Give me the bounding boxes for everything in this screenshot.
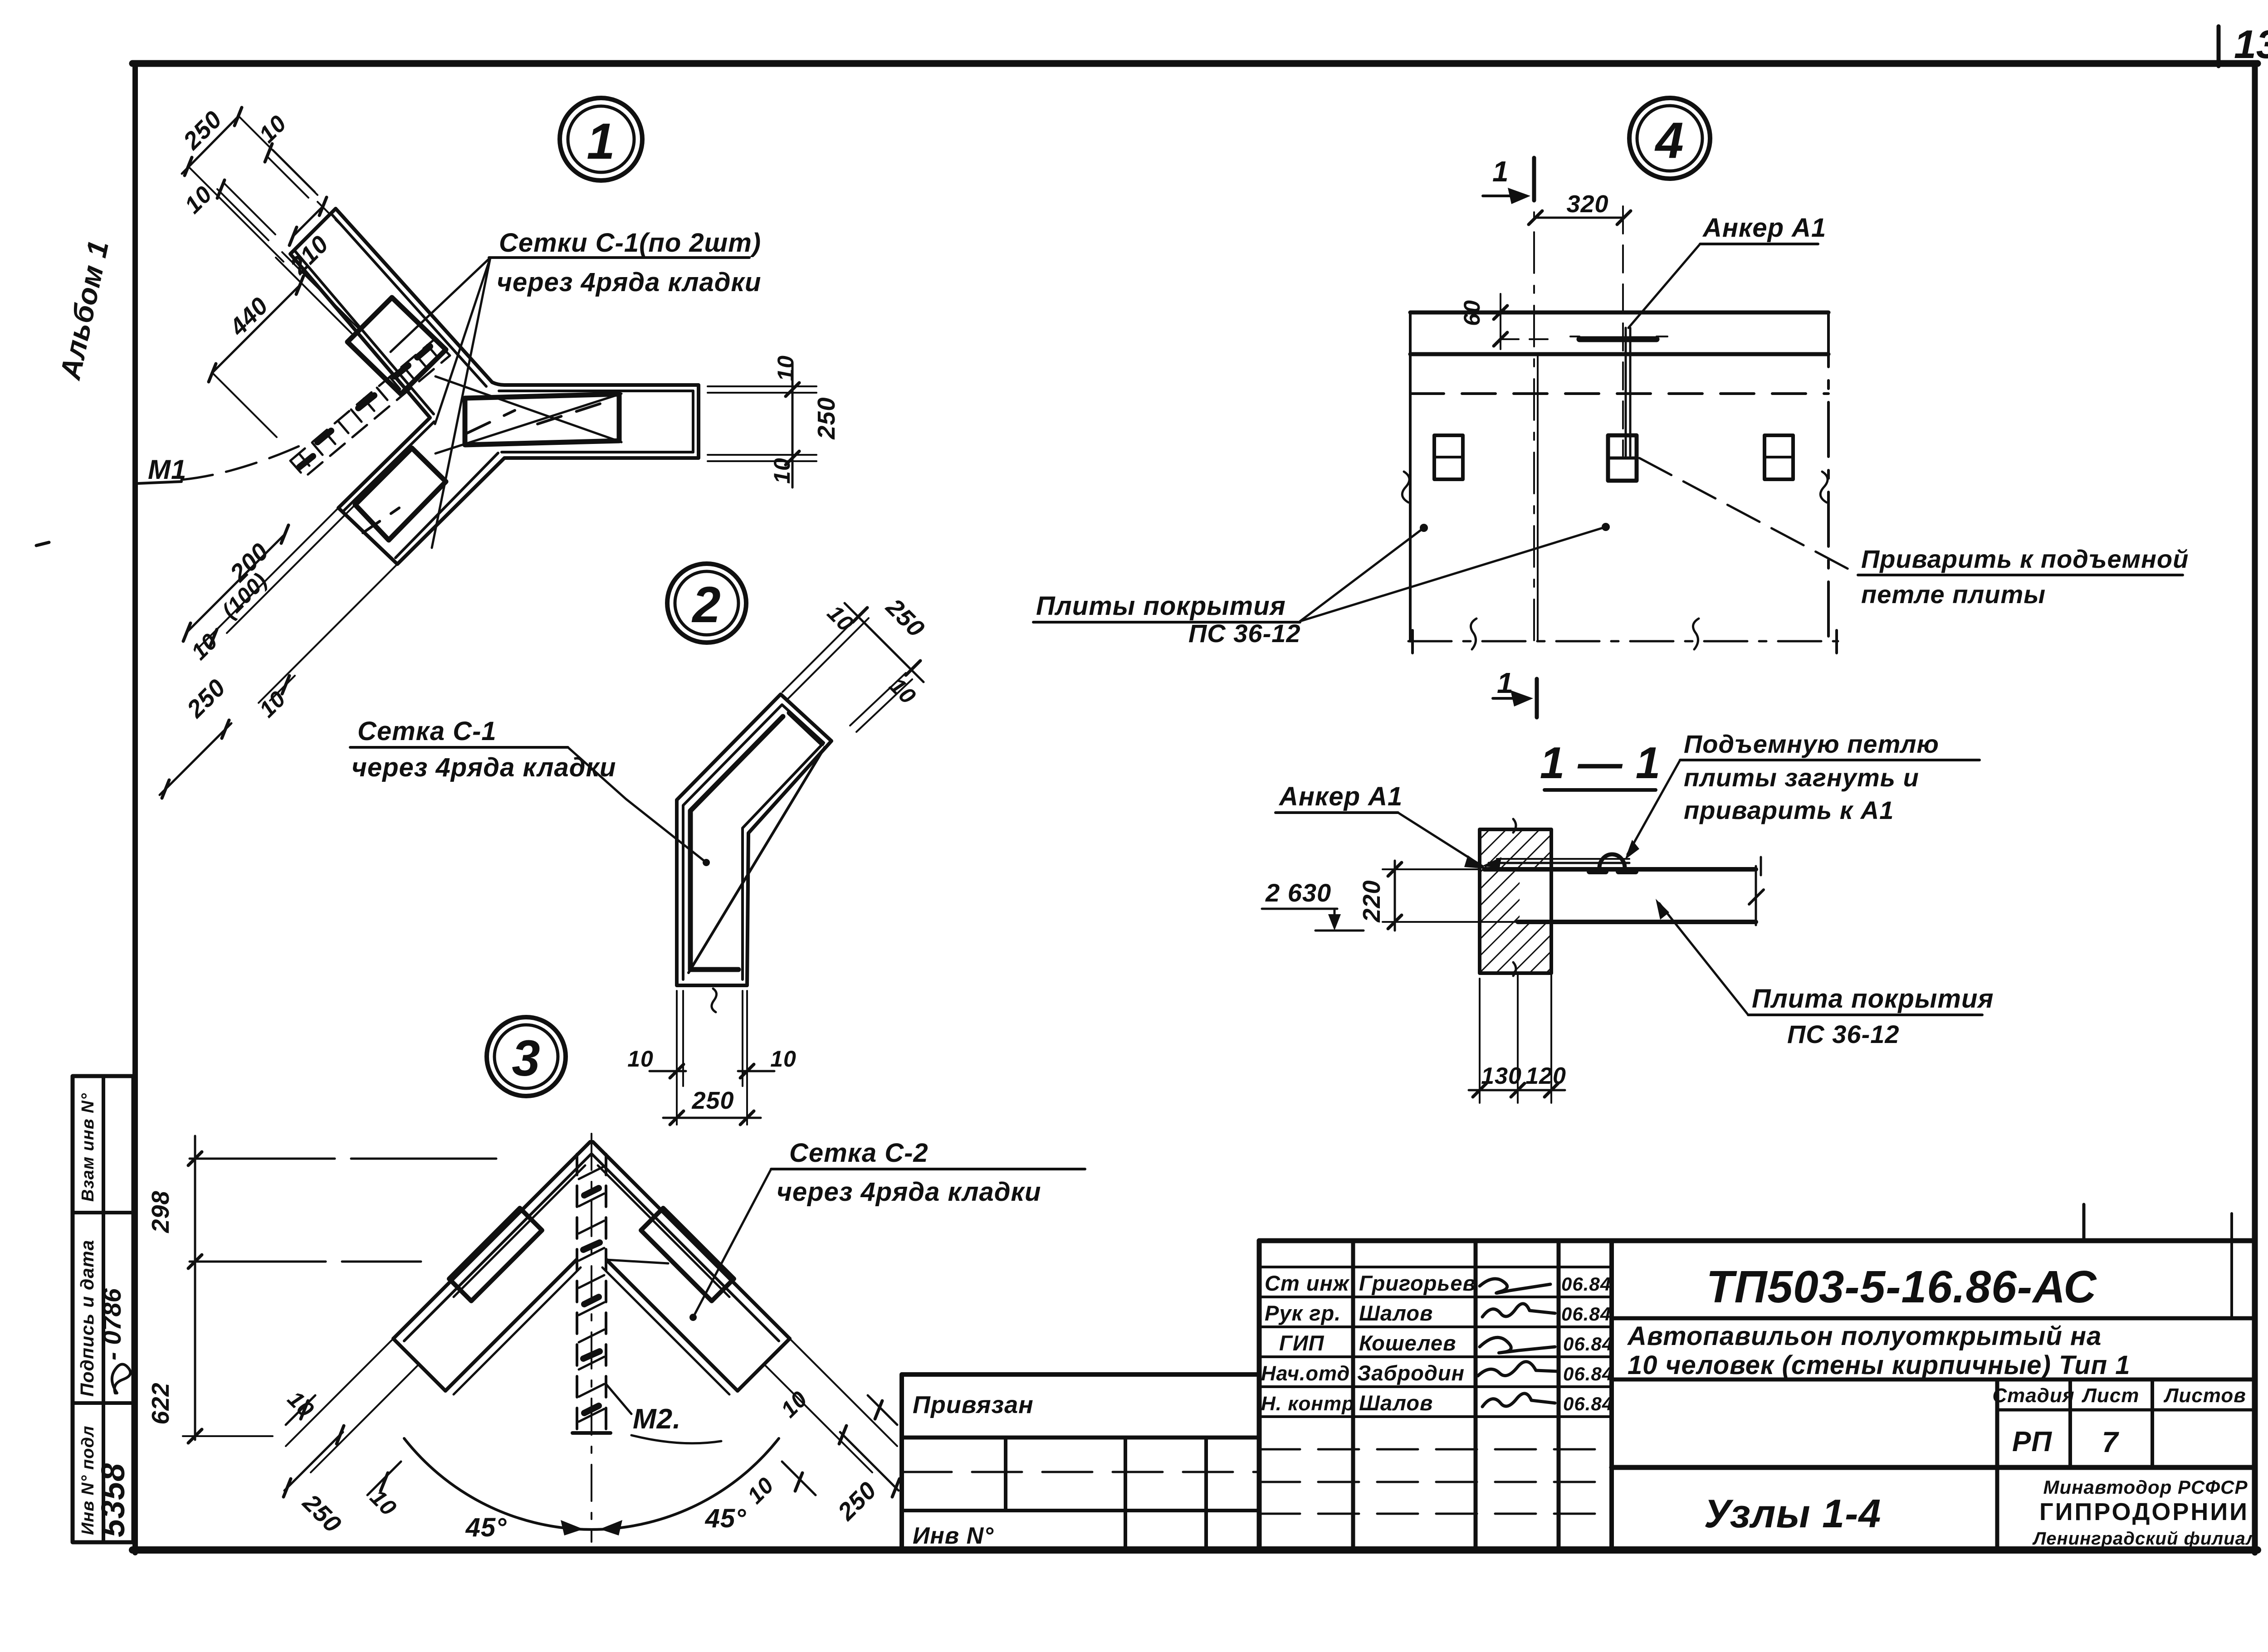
svg-text:440: 440 xyxy=(224,292,274,341)
svg-text:10: 10 xyxy=(776,1386,812,1423)
center axis xyxy=(591,1134,592,1542)
mesh diagonal X line 2 xyxy=(435,394,621,453)
svg-text:Альбом 1: Альбом 1 xyxy=(54,237,115,383)
wall inner line E top xyxy=(499,390,693,392)
wall plan right edge xyxy=(1827,312,1830,641)
svg-text:250: 250 xyxy=(691,1087,734,1114)
svg-text:Лист: Лист xyxy=(2082,1384,2140,1407)
wall top break tick xyxy=(1513,819,1516,833)
E arm dim line xyxy=(792,363,794,487)
svg-text:1: 1 xyxy=(1497,667,1514,699)
svg-text:М2.: М2. xyxy=(633,1403,681,1435)
anchor bar on slab xyxy=(1489,862,1629,864)
mesh cross line right xyxy=(606,1260,668,1263)
DETAIL-4 xyxy=(1033,98,2189,717)
svg-text:Анкер А1: Анкер А1 xyxy=(1278,782,1403,811)
sig row lines xyxy=(1259,1266,1612,1268)
break mark bottom 1 xyxy=(1471,619,1477,649)
stamp table column divider xyxy=(102,1076,105,1542)
svg-text:через 4ряда кладки: через 4ряда кладки xyxy=(777,1177,1041,1207)
svg-text:РП: РП xyxy=(2012,1426,2052,1457)
border bottom xyxy=(132,1546,2258,1554)
leader privarit xyxy=(1639,458,1858,574)
svg-text:Нач.отд: Нач.отд xyxy=(1261,1362,1350,1385)
mesh diagonal xyxy=(689,747,825,973)
left height ext line bottom xyxy=(183,1435,273,1437)
wall inner line NE lower xyxy=(294,250,434,414)
svg-text:13: 13 xyxy=(2234,22,2268,67)
svg-text:250: 250 xyxy=(832,1477,882,1526)
left height dim line xyxy=(194,1136,196,1440)
svg-text:10: 10 xyxy=(770,1046,797,1072)
svg-text:10: 10 xyxy=(773,355,798,381)
svg-text:250: 250 xyxy=(813,397,840,439)
arc arrow right xyxy=(600,1520,622,1535)
SW ext lines xyxy=(200,508,338,647)
dim ext 210 xyxy=(276,258,352,333)
svg-text:06.84: 06.84 xyxy=(1563,1333,1613,1355)
svg-text:ГИП: ГИП xyxy=(1279,1331,1325,1355)
leader to SW mesh xyxy=(432,258,490,548)
signature table outline xyxy=(1259,1238,2255,1243)
right block col lines xyxy=(1995,1379,1999,1550)
top dim chain xyxy=(845,603,924,682)
svg-text:45°: 45° xyxy=(705,1504,747,1533)
svg-text:Взам инв N°: Взам инв N° xyxy=(78,1093,98,1202)
svg-text:10: 10 xyxy=(365,1485,401,1521)
dim ext top xyxy=(239,117,318,195)
slab right break xyxy=(1755,866,1757,925)
svg-text:7: 7 xyxy=(2102,1426,2120,1458)
svg-text:250: 250 xyxy=(181,674,231,723)
svg-text:Автопавильон полуоткрытый на: Автопавильон полуоткрытый на xyxy=(1627,1321,2102,1351)
svg-text:06.84: 06.84 xyxy=(1561,1303,1611,1325)
wall plan dashed edge xyxy=(1410,392,1828,395)
inner V right xyxy=(606,1260,738,1391)
slab bottom line xyxy=(1518,920,1756,924)
label underline xyxy=(771,1168,1085,1170)
break mark bottom 2 xyxy=(1693,619,1699,649)
inner V right double xyxy=(602,1267,729,1394)
detail circle 1 xyxy=(560,98,642,180)
podyemnuyu underline xyxy=(1680,759,1980,761)
svg-text:Стадия: Стадия xyxy=(1992,1384,2074,1407)
svg-text:Привязан: Привязан xyxy=(913,1391,1034,1418)
central strip bottom xyxy=(572,1431,611,1435)
bottom dim line xyxy=(1469,1089,1565,1092)
leader plity 2 xyxy=(1300,527,1606,621)
bottom dim ext lines xyxy=(1479,979,1481,1103)
svg-text:220: 220 xyxy=(1358,880,1385,922)
privarit underline xyxy=(1858,574,2183,576)
wall plan second edge xyxy=(1410,352,1828,356)
wall section hatched xyxy=(1480,829,1551,973)
wall plan left edge xyxy=(1409,312,1412,641)
svg-text:ПС 36-12: ПС 36-12 xyxy=(1787,1020,1900,1048)
svg-text:Плита покрытия: Плита покрытия xyxy=(1752,984,1994,1014)
TITLE-BLOCK xyxy=(902,1204,2258,1550)
DETAIL-2 xyxy=(350,564,930,1125)
sig col dividers xyxy=(1351,1241,1355,1550)
svg-text:10: 10 xyxy=(743,1472,779,1509)
privyazan rows xyxy=(902,1436,1259,1440)
svg-text:06.84: 06.84 xyxy=(1563,1363,1613,1384)
stray dash left margin xyxy=(36,542,49,546)
svg-text:06.84: 06.84 xyxy=(1563,1393,1613,1414)
anchor strip M1 xyxy=(290,339,450,477)
plity underline xyxy=(1033,621,1300,624)
wall inner line E end xyxy=(692,391,694,452)
mesh C1 thick line xyxy=(690,716,783,970)
label underline xyxy=(489,256,749,259)
stamp table box xyxy=(73,1076,133,1542)
svg-text:Узлы 1-4: Узлы 1-4 xyxy=(1704,1491,1882,1536)
mesh dashed in SW arm xyxy=(363,508,399,533)
svg-text:3: 3 xyxy=(512,1030,540,1087)
right arm end cut xyxy=(738,1339,790,1391)
lifting loop bent xyxy=(1599,854,1625,868)
svg-text:Подпись и дата: Подпись и дата xyxy=(77,1240,98,1397)
joint axis line xyxy=(1533,159,1535,644)
mesh dashed axis 2 xyxy=(538,403,603,424)
leader plity 1 xyxy=(1300,528,1424,621)
svg-text:250: 250 xyxy=(880,593,930,643)
wall inner line SW left xyxy=(343,422,434,512)
dim 220 line xyxy=(1394,861,1396,931)
svg-text:10: 10 xyxy=(180,181,217,219)
svg-text:через 4ряда кладки: через 4ряда кладки xyxy=(497,268,761,297)
strip hatch xyxy=(299,345,438,466)
right chain 250 xyxy=(840,1432,899,1491)
svg-text:Забродин: Забродин xyxy=(1357,1361,1465,1385)
DETAIL-1 xyxy=(138,98,840,798)
svg-text:Кошелев: Кошелев xyxy=(1359,1331,1456,1355)
mesh C2 right arm xyxy=(641,1208,734,1301)
svg-text:2 630: 2 630 xyxy=(1265,878,1331,907)
chevron outer left double xyxy=(404,1154,591,1341)
plita underline xyxy=(1748,1014,1982,1016)
svg-text:10: 10 xyxy=(186,629,223,665)
dim chain 250 top xyxy=(182,117,238,174)
mesh C1 top thick xyxy=(789,713,822,744)
right block row lines xyxy=(1612,1316,2255,1321)
svg-text:10: 10 xyxy=(769,458,795,484)
svg-text:Минавтодор РСФСР: Минавтодор РСФСР xyxy=(2043,1477,2248,1498)
mesh C1 in NE arm xyxy=(347,297,446,394)
break mark left xyxy=(1402,472,1409,502)
svg-text:петле плиты: петле плиты xyxy=(1861,580,2046,609)
strip hatch xyxy=(579,1166,604,1422)
central strip M2 left edge xyxy=(576,1154,578,1433)
svg-text:1: 1 xyxy=(1492,155,1509,188)
chevron outer right double xyxy=(592,1154,779,1341)
dim chain 210 xyxy=(293,206,323,236)
chevron outer left xyxy=(393,1142,590,1339)
lifting loop left xyxy=(1434,435,1463,479)
leader to right mesh xyxy=(693,1169,771,1317)
detail circle 2 xyxy=(667,564,746,643)
wall outline outer xyxy=(290,209,699,564)
inner V left xyxy=(445,1260,577,1391)
dim chain 440 xyxy=(212,285,300,373)
svg-text:Подъемную петлю: Подъемную петлю xyxy=(1684,730,1939,758)
svg-text:ТП503-5-16.86-АС: ТП503-5-16.86-АС xyxy=(1706,1262,2097,1312)
svg-text:Ленинградский филиал: Ленинградский филиал xyxy=(2032,1529,2258,1549)
svg-text:10: 10 xyxy=(254,110,292,148)
svg-text:10: 10 xyxy=(254,686,291,722)
arc arrow left xyxy=(561,1520,583,1535)
svg-text:250: 250 xyxy=(297,1489,347,1538)
dim 220 ext bottom xyxy=(1383,921,1518,923)
right ext pair xyxy=(790,1339,897,1446)
svg-text:ГИПРОДОРНИИ: ГИПРОДОРНИИ xyxy=(2039,1498,2249,1525)
wall plan top edge xyxy=(1410,311,1828,315)
mesh C2 left arm xyxy=(449,1208,542,1301)
svg-text:10 человек (стены кирпичные) Т: 10 человек (стены кирпичные) Тип 1 xyxy=(1628,1350,2130,1380)
mesh C1 in E arm xyxy=(465,394,619,445)
svg-text:130: 130 xyxy=(1481,1063,1522,1089)
svg-text:Сетка С-2: Сетка С-2 xyxy=(789,1138,929,1168)
page number tick xyxy=(2217,26,2221,66)
svg-text:Ст инж: Ст инж xyxy=(1265,1271,1350,1295)
svg-text:Сетки С-1(по 2шт): Сетки С-1(по 2шт) xyxy=(499,228,761,258)
leader M1 xyxy=(181,444,303,480)
svg-text:10: 10 xyxy=(885,673,921,709)
lifting loop middle xyxy=(1608,435,1637,481)
leader to E mesh xyxy=(435,258,490,424)
left arm end cut xyxy=(393,1339,445,1391)
left ext pair xyxy=(286,1339,393,1446)
joint double line xyxy=(1537,354,1539,641)
svg-text:1: 1 xyxy=(587,113,615,170)
top dim ext pair xyxy=(782,612,863,692)
label underline xyxy=(350,746,568,749)
angle arc xyxy=(404,1438,779,1530)
dim chain 200 xyxy=(187,534,285,632)
bottom ext lines xyxy=(676,991,678,1125)
dim 220 ext top xyxy=(1383,868,1480,870)
mesh dashed axis 1 xyxy=(467,410,515,433)
svg-text:622: 622 xyxy=(147,1382,174,1424)
svg-text:45°: 45° xyxy=(465,1513,507,1542)
svg-text:Плиты покрытия: Плиты покрытия xyxy=(1036,591,1286,621)
svg-text:Рук гр.: Рук гр. xyxy=(1265,1301,1341,1325)
svg-text:Инв N° подл: Инв N° подл xyxy=(78,1425,98,1535)
anchor rod xyxy=(1622,206,1624,456)
leader podyemnuyu xyxy=(1628,760,1680,854)
stamp row divider 1 xyxy=(73,1211,133,1214)
svg-text:5358: 5358 xyxy=(95,1463,132,1537)
svg-text:Приварить к подъемной: Приварить к подъемной xyxy=(1861,545,2189,573)
leader anker xyxy=(1398,813,1482,866)
bottom dim 250 xyxy=(663,1117,761,1119)
stamp row divider 2 xyxy=(73,1401,133,1405)
svg-text:Сетка С-1: Сетка С-1 xyxy=(357,716,497,746)
break mark right xyxy=(1820,472,1828,502)
central strip M2 right edge xyxy=(605,1154,607,1433)
wall bottom break tick xyxy=(1513,962,1516,976)
wall inner line E bottom xyxy=(502,451,693,453)
svg-text:2: 2 xyxy=(691,576,721,633)
left chain 250 xyxy=(284,1432,343,1491)
svg-text:10: 10 xyxy=(627,1046,654,1072)
LEFT-STAMPS xyxy=(54,237,133,1542)
inner V left double xyxy=(454,1267,581,1394)
svg-text:Инв N°: Инв N° xyxy=(913,1523,994,1549)
svg-text:Григорьев: Григорьев xyxy=(1359,1271,1476,1295)
svg-text:Н. контр: Н. контр xyxy=(1261,1393,1354,1415)
privyazan cols xyxy=(1004,1438,1007,1511)
svg-text:Шалов: Шалов xyxy=(1359,1301,1433,1325)
svg-text:250: 250 xyxy=(178,106,227,155)
svg-text:120: 120 xyxy=(1525,1063,1566,1089)
dim chain 250 sw xyxy=(160,723,231,795)
svg-text:1 — 1: 1 — 1 xyxy=(1540,738,1661,788)
leader M2 tail xyxy=(631,1435,721,1443)
svg-text:06.84: 06.84 xyxy=(1561,1273,1611,1295)
stamp signature xyxy=(112,1364,131,1393)
lifting loop right xyxy=(1765,435,1793,479)
svg-text:Анкер А1: Анкер А1 xyxy=(1702,213,1826,243)
svg-text:приварить к А1: приварить к А1 xyxy=(1684,796,1894,824)
privyazan table outline xyxy=(902,1372,1259,1377)
mesh thin diagonal left xyxy=(454,1165,585,1297)
border top xyxy=(132,60,2258,67)
anchor plate A1 xyxy=(1579,336,1657,342)
svg-text:через 4ряда кладки: через 4ряда кладки xyxy=(352,753,616,782)
bottom break tick xyxy=(712,989,717,1012)
svg-text:320: 320 xyxy=(1566,190,1608,218)
leader to NE mesh xyxy=(391,258,490,352)
leader M2 xyxy=(606,1384,631,1414)
fold tick 1 xyxy=(2082,1204,2086,1241)
svg-text:4: 4 xyxy=(1654,112,1684,169)
svg-text:298: 298 xyxy=(147,1190,174,1233)
left height ext line 298 top xyxy=(190,1158,504,1160)
wall inner line NE xyxy=(331,213,486,386)
mesh diagonal X line 1 xyxy=(435,376,621,442)
svg-text:10: 10 xyxy=(822,600,859,637)
wall inner line SW right xyxy=(396,453,498,558)
mesh thin diagonal right xyxy=(598,1165,729,1297)
svg-text:плиты загнуть и: плиты загнуть и xyxy=(1684,763,1919,792)
svg-text:Листов: Листов xyxy=(2163,1384,2246,1407)
bent wall inner lines xyxy=(683,705,824,980)
border left xyxy=(132,63,138,1553)
svg-text:- 0786: - 0786 xyxy=(98,1288,126,1360)
slab notch white xyxy=(1520,872,1549,920)
leader plita xyxy=(1659,903,1748,1015)
left height ext line mid xyxy=(190,1261,421,1263)
bent wall outline outer xyxy=(677,694,831,985)
E arm right dims ext xyxy=(708,385,816,387)
mesh C1 bottom thick xyxy=(690,967,738,972)
mesh C1 in SW arm xyxy=(355,448,446,540)
svg-text:Шалов: Шалов xyxy=(1359,1391,1433,1415)
border right xyxy=(2252,63,2258,1553)
detail circle 4 xyxy=(1629,98,1710,179)
fold tick 2 xyxy=(2230,1213,2233,1317)
chevron outer right xyxy=(593,1142,790,1339)
strip blobs xyxy=(583,1188,600,1413)
SECTION-1-1 xyxy=(1262,730,1994,1103)
leader anker xyxy=(1628,244,1700,328)
detail circle 3 xyxy=(487,1017,566,1096)
strip blobs xyxy=(299,346,430,467)
DETAIL-3 xyxy=(147,1017,1085,1542)
slab top line xyxy=(1484,867,1756,872)
leader to mesh xyxy=(568,747,704,861)
plan bottom line xyxy=(1408,640,1838,643)
